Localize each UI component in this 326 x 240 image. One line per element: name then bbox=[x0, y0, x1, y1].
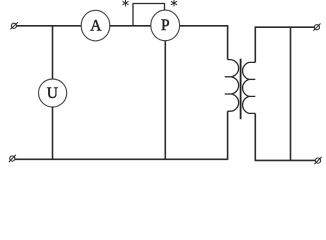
wire: voltmeter top lead (tap on top wire) bbox=[52, 26, 54, 80]
transformer primary winding L1 bbox=[225, 60, 239, 112]
wire: voltmeter bottom lead to bottom rail bbox=[52, 107, 54, 159]
svg-text:A: A bbox=[90, 17, 102, 34]
polarity mark * (right, at wattmeter voltage terminal) bbox=[171, 0, 177, 7]
transformer secondary winding L2 bbox=[243, 62, 256, 113]
wire: wattmeter to transformer primary (top) bbox=[180, 26, 228, 60]
svg-text:U: U bbox=[47, 85, 58, 102]
terminal X1 (top-left input, ø) bbox=[10, 22, 18, 29]
wire: secondary top lead and wire to top-right terminal bbox=[255, 27, 314, 62]
ammeter U1 "A" bbox=[81, 10, 110, 41]
svg-text:P: P bbox=[161, 17, 170, 34]
transformer core bbox=[240, 59, 242, 119]
wire: ammeter to wattmeter current coil bbox=[110, 25, 151, 27]
wire: short-circuit link (right vertical rail) bbox=[290, 27, 292, 160]
polarity mark * (left, at wattmeter current terminal) bbox=[123, 0, 129, 7]
terminal X3 (top-right output, ø) bbox=[313, 24, 320, 31]
wire: wattmeter voltage coil return lead bbox=[164, 41, 166, 160]
terminal X2 (bottom-left input, ø) bbox=[9, 155, 16, 162]
wattmeter U2 "P" bbox=[151, 10, 180, 41]
terminal X4 (bottom-right output, ø) bbox=[314, 157, 321, 164]
wattmeter voltage-coil link (bracket from wire up over to P top) bbox=[133, 4, 165, 26]
wire: secondary bottom lead and bottom-right rail to terminal bbox=[255, 113, 315, 160]
wire: bottom-left rail bbox=[15, 158, 228, 160]
voltmeter U3 "U" bbox=[39, 79, 67, 107]
wire: primary bottom lead bbox=[227, 111, 229, 160]
wire: top-left terminal to ammeter bbox=[17, 25, 82, 27]
